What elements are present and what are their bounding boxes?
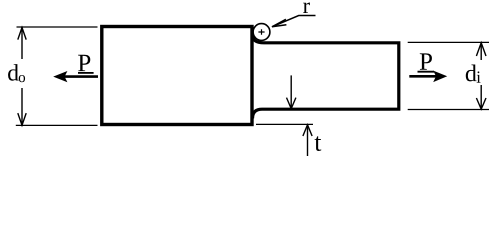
leader arrowhead <box>272 19 286 27</box>
underline of P left <box>78 72 94 74</box>
label d_o subscript o <box>19 75 25 82</box>
d_o dimension line lower segment with down arrow <box>18 88 26 125</box>
label d_o glyph d <box>8 64 19 81</box>
d_i dimension line upper segment with up arrow <box>476 43 486 60</box>
bottom extension line of d_o <box>16 124 98 126</box>
label r glyph <box>303 2 310 13</box>
d_o dimension line upper segment with up arrow <box>18 28 26 60</box>
t up arrow <box>303 125 312 156</box>
force arrow P left <box>53 71 98 82</box>
large bar outline <box>102 27 252 125</box>
t down arrow <box>287 75 296 108</box>
d_i dimension line lower segment with down arrow <box>476 85 486 109</box>
label P right glyph <box>420 53 432 69</box>
small bar outline with fillets <box>253 35 399 119</box>
label t glyph <box>315 136 322 151</box>
fillet radius indicator circle <box>253 24 270 41</box>
leader line for r <box>272 16 316 27</box>
top extension line of d_o <box>17 26 98 28</box>
top extension line of d_i <box>408 41 489 43</box>
label P left glyph <box>78 55 90 71</box>
t extension line <box>256 123 313 125</box>
label d_i subscript i <box>477 71 481 82</box>
underline of P right <box>418 71 435 73</box>
force arrow P right <box>409 71 447 83</box>
bottom extension line of d_i <box>408 109 489 111</box>
plus mark at circle center <box>258 29 264 35</box>
label d_i glyph d <box>466 65 477 82</box>
